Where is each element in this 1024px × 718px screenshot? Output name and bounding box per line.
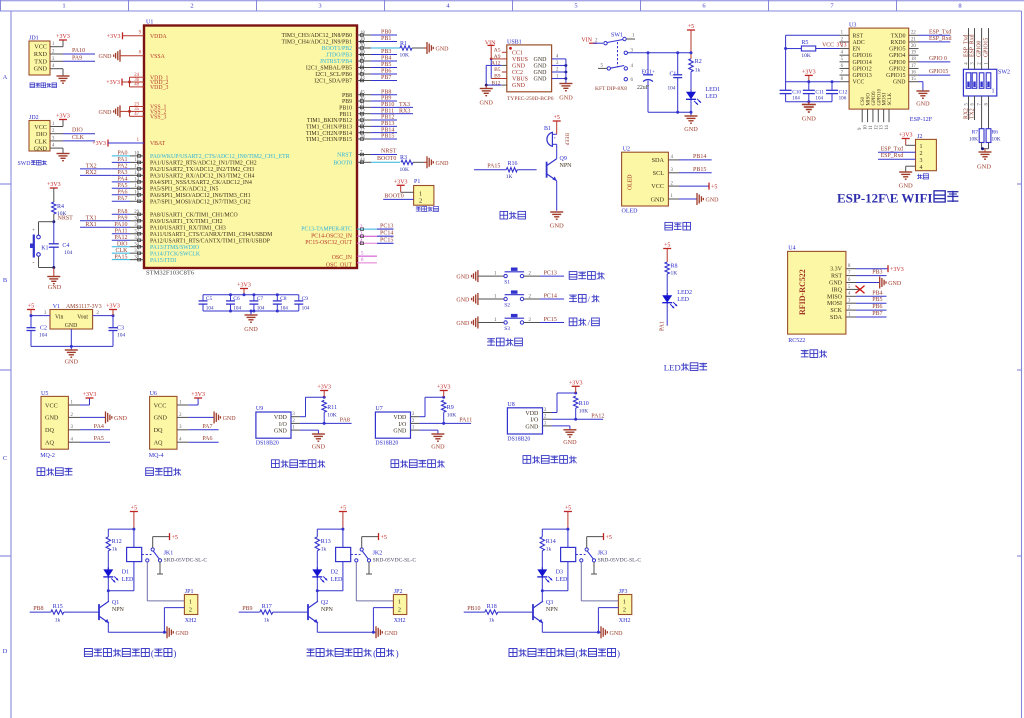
- mcu pin OSC_OUT: [357, 258, 377, 263]
- svg-text:2: 2: [419, 198, 422, 205]
- svg-text:LED: LED: [664, 363, 681, 373]
- svg-text:1k: 1k: [489, 618, 495, 624]
- svg-text:C2: C2: [40, 326, 47, 332]
- svg-text:NRST: NRST: [337, 153, 352, 159]
- svg-text:18: 18: [911, 57, 916, 62]
- svg-text:10K: 10K: [992, 137, 1001, 143]
- svg-text:106: 106: [839, 96, 847, 102]
- svg-text:A: A: [3, 74, 8, 81]
- USB1 left pin labels and wires: [485, 45, 507, 86]
- svg-text:JTDO/PB3: JTDO/PB3: [326, 53, 352, 59]
- svg-text:15: 15: [911, 77, 916, 82]
- svg-text:RFID-RC522: RFID-RC522: [798, 269, 807, 315]
- connector JD1 serial download: [29, 36, 50, 76]
- svg-text:38: 38: [134, 255, 139, 260]
- svg-text:PA7: PA7: [117, 196, 127, 202]
- svg-text:4: 4: [920, 165, 923, 171]
- svg-text:C8: C8: [280, 296, 287, 302]
- svg-text:GND: GND: [436, 47, 450, 53]
- svg-text:GND: GND: [512, 83, 526, 89]
- svg-text:27: 27: [360, 128, 365, 133]
- switch SW1 KFT DIP-8X8: [581, 33, 648, 93]
- svg-text:GND: GND: [48, 284, 62, 291]
- svg-text:C7: C7: [257, 296, 264, 302]
- svg-text:JK3: JK3: [598, 550, 608, 556]
- svg-text:LED: LED: [122, 577, 134, 583]
- svg-text:PA3/USART2_RX/ADC12_IN3/TIM2_C: PA3/USART2_RX/ADC12_IN3/TIM2_CH4: [150, 174, 255, 180]
- svg-text:KFT DIP-8X8: KFT DIP-8X8: [595, 86, 627, 92]
- resistor R5 10K euro style: [786, 40, 847, 59]
- svg-text:PA12: PA12: [114, 235, 127, 241]
- svg-text:PA3: PA3: [117, 170, 127, 176]
- svg-text:R9: R9: [447, 405, 454, 411]
- ground at S1: [456, 270, 478, 282]
- wire +5 rail of led circuit: [647, 24, 696, 59]
- mcu pin PB0: [357, 30, 397, 37]
- net PA12 wire: [551, 413, 604, 420]
- mcu pin PB11: [357, 108, 413, 115]
- svg-text:GPIO14: GPIO14: [853, 60, 872, 66]
- ground at USB1 left: [479, 85, 493, 106]
- svg-text:PB8: PB8: [381, 89, 391, 95]
- svg-text:GND: GND: [312, 443, 326, 450]
- mcu pin row DIO: [112, 241, 144, 248]
- svg-text:ESP_Txd: ESP_Txd: [929, 29, 951, 35]
- resistor R15 1k input: [30, 604, 99, 624]
- mcu pin row CLK: [112, 248, 144, 255]
- svg-text:PB4: PB4: [381, 56, 391, 62]
- svg-text:2: 2: [190, 3, 193, 10]
- svg-text:PA15/JTDI: PA15/JTDI: [150, 258, 176, 264]
- svg-text:+5: +5: [664, 243, 670, 249]
- mcu pin row PA11: [112, 228, 144, 235]
- svg-text:BEEP: BEEP: [564, 133, 569, 145]
- svg-text:104: 104: [257, 306, 265, 312]
- svg-text:GND: GND: [393, 429, 407, 435]
- svg-text:45: 45: [360, 91, 365, 96]
- svg-text:104: 104: [233, 306, 241, 312]
- svg-text:VBUS: VBUS: [512, 57, 528, 63]
- svg-text:1: 1: [623, 599, 626, 606]
- sw2 bottom wires rx2 tx2: [963, 96, 989, 120]
- svg-text:21: 21: [911, 37, 916, 42]
- net PB6 wire: [856, 304, 887, 310]
- mcu pin PB12: [357, 115, 397, 122]
- svg-text:1k: 1k: [321, 546, 327, 552]
- svg-text:39: 39: [360, 50, 365, 55]
- svg-text:+3V3: +3V3: [47, 182, 61, 188]
- svg-text:GPIO15: GPIO15: [983, 38, 989, 57]
- svg-text:5: 5: [574, 3, 577, 10]
- svg-text:+3V3: +3V3: [802, 69, 816, 75]
- svg-text:GND: GND: [223, 416, 237, 422]
- svg-text:104: 104: [815, 96, 823, 102]
- ground at U9: [300, 430, 326, 450]
- svg-text:PB6: PB6: [381, 69, 391, 75]
- ground at U6: [189, 411, 237, 423]
- svg-text:GND: GND: [114, 416, 128, 422]
- svg-text:MOSI: MOSI: [883, 93, 888, 106]
- mcu pin PA2: [80, 163, 144, 170]
- net ESP_Rxd at J2: [878, 153, 916, 159]
- svg-text:RXD0: RXD0: [890, 40, 905, 46]
- svg-text:+5: +5: [688, 24, 694, 30]
- svg-text:R15: R15: [53, 604, 63, 610]
- power +5 relay JK3: [564, 506, 572, 548]
- ground reset: [47, 266, 61, 291]
- esp pin stubs: [840, 31, 919, 130]
- relay coil JK1: [107, 547, 142, 592]
- mcu pin PA5: [112, 183, 144, 190]
- svg-text:SRD-05VDC-SL-C: SRD-05VDC-SL-C: [373, 558, 417, 564]
- svg-text:CLK: CLK: [116, 248, 129, 254]
- svg-text:GPIO10: GPIO10: [877, 88, 882, 105]
- U7 pin stubs: [411, 412, 420, 430]
- svg-text:RX1: RX1: [85, 222, 96, 228]
- svg-text:CS0: CS0: [861, 96, 866, 105]
- svg-text:10K: 10K: [400, 167, 410, 173]
- svg-text:18: 18: [360, 31, 365, 36]
- svg-text:I/O: I/O: [530, 418, 539, 424]
- capacitor C11 104: [803, 82, 825, 104]
- mcu pin NRST: [357, 148, 397, 156]
- svg-text:C1: C1: [670, 72, 677, 78]
- svg-text:13: 13: [134, 171, 139, 176]
- resistor R4 10K: [52, 202, 67, 217]
- svg-text:PA11/USART1_CTS/CANRX/TIM1_CH4: PA11/USART1_CTS/CANRX/TIM1_CH4/USBDM: [150, 232, 272, 238]
- net PA4 wire: [80, 424, 110, 430]
- svg-text:PA6: PA6: [202, 436, 212, 442]
- svg-text:GND: GND: [274, 429, 288, 435]
- mcu pin OSC_IN: [357, 251, 377, 256]
- svg-text:11: 11: [134, 158, 139, 163]
- mcu pin PC14: [357, 231, 394, 238]
- mcu pin PB1: [357, 36, 397, 43]
- mcu pin PA1: [112, 157, 144, 164]
- svg-text:2: 2: [398, 606, 401, 613]
- resistor R13 1k: [315, 537, 331, 570]
- caption relay output: [307, 649, 399, 659]
- svg-text:PA8/USART1_CK/TIM1_CH1/MCO: PA8/USART1_CK/TIM1_CH1/MCO: [150, 213, 238, 219]
- svg-text:SDA: SDA: [830, 315, 843, 321]
- svg-text:17: 17: [911, 64, 916, 69]
- svg-text:EN: EN: [853, 47, 862, 53]
- svg-text:40: 40: [360, 57, 365, 62]
- U6 pin wires: [177, 400, 189, 442]
- svg-text:EC1: EC1: [642, 70, 652, 76]
- svg-text:MISO: MISO: [867, 93, 872, 106]
- svg-text:PA10: PA10: [114, 222, 127, 228]
- regulator V1 AMS1117-3V3: [50, 304, 102, 329]
- svg-text:30: 30: [134, 217, 139, 222]
- svg-text:PA2/USART2_TX/ADC12_IN2/TIM2_C: PA2/USART2_TX/ADC12_IN2/TIM2_CH3: [150, 167, 254, 173]
- diode LED1: [686, 87, 720, 105]
- svg-text:20: 20: [911, 44, 916, 49]
- svg-text:(: (: [373, 649, 376, 659]
- oled pin wires: [668, 155, 679, 199]
- oled module U2: [622, 147, 669, 215]
- resistor R16 1K: [474, 161, 537, 180]
- power +3V3 at JD2: [56, 114, 70, 120]
- svg-text:1k: 1k: [695, 68, 701, 74]
- svg-text:104: 104: [117, 333, 126, 339]
- svg-text:PA5: PA5: [94, 436, 104, 442]
- net GPIO15 wire: [919, 69, 951, 75]
- caption xiazai at J2: [917, 174, 928, 179]
- svg-text:+5: +5: [28, 304, 34, 310]
- switch S1: [478, 268, 540, 286]
- svg-text:): ): [617, 649, 620, 659]
- svg-text:SW1: SW1: [611, 33, 623, 39]
- capacitor C10 104: [780, 90, 802, 102]
- svg-text:3: 3: [318, 3, 321, 10]
- svg-text:GND: GND: [99, 110, 113, 116]
- net PB4 wire: [856, 290, 887, 296]
- caption LED deng dianlu: [664, 363, 707, 373]
- net PA10 wire: [63, 48, 95, 54]
- title ESP-12F\E WIFI module: [837, 191, 958, 206]
- svg-text:Vin: Vin: [55, 315, 63, 321]
- svg-text:TIM1_CH2N/PB14: TIM1_CH2N/PB14: [306, 131, 352, 137]
- svg-text:R18: R18: [487, 604, 497, 610]
- caption button function: [569, 318, 599, 328]
- mcu pin PB6: [357, 69, 397, 76]
- relay emitter gnd rail JK2: [317, 623, 398, 638]
- svg-text:ESP-12F\E WIFI: ESP-12F\E WIFI: [837, 191, 932, 206]
- ground at U8: [551, 426, 577, 446]
- wire NC contact to JP3: [581, 562, 618, 601]
- net PA8 wire: [300, 418, 352, 425]
- svg-text:GPIO5: GPIO5: [889, 47, 906, 53]
- net PA6 wire: [189, 436, 219, 442]
- svg-text:+: +: [32, 229, 35, 234]
- svg-text:I/O: I/O: [398, 422, 407, 428]
- svg-text:GND: GND: [550, 223, 564, 230]
- connector USB1 TYPEC: [507, 40, 552, 92]
- svg-text:PB14: PB14: [693, 154, 706, 160]
- net PA7 wire: [189, 424, 219, 430]
- buzzer B1: [544, 126, 569, 147]
- svg-text:LED: LED: [331, 577, 343, 583]
- svg-text:TIM3_CH4/ADC12_IN9/PB1: TIM3_CH4/ADC12_IN9/PB1: [281, 40, 352, 46]
- svg-text:CLK: CLK: [35, 138, 48, 145]
- ground at JD1 pin4: [57, 69, 70, 84]
- net PB15 wire: [679, 167, 712, 173]
- relay top rail JK1: [108, 529, 134, 537]
- svg-text:VCC: VCC: [853, 80, 865, 86]
- relay switch JK3: [576, 540, 642, 574]
- svg-text:): ): [173, 649, 176, 659]
- svg-text:44: 44: [360, 158, 365, 163]
- led circuit ground rail: [648, 101, 698, 133]
- mcu pin PB7: [357, 75, 397, 82]
- svg-text:VDD: VDD: [274, 415, 288, 421]
- svg-text:BOOT1/PB2: BOOT1/PB2: [322, 46, 352, 52]
- net PC13 wire: [540, 271, 564, 277]
- svg-text:12: 12: [874, 125, 879, 130]
- svg-text:GND: GND: [479, 100, 493, 107]
- svg-text:GND: GND: [65, 359, 79, 366]
- svg-text:NPN: NPN: [112, 607, 125, 613]
- svg-text:GND: GND: [456, 321, 470, 327]
- svg-text:OLED: OLED: [628, 175, 634, 190]
- ground at S2: [456, 293, 478, 305]
- svg-text:U9: U9: [256, 406, 263, 412]
- svg-text:GND: GND: [706, 198, 720, 204]
- svg-text:PB10: PB10: [467, 606, 480, 612]
- power +5 at relay switch JK3: [587, 533, 612, 541]
- resistor R3 10K: [400, 155, 425, 173]
- svg-text:14: 14: [885, 125, 890, 130]
- svg-text:XH2: XH2: [185, 618, 197, 624]
- svg-text:PB11: PB11: [339, 112, 352, 118]
- svg-text:1k: 1k: [264, 618, 270, 624]
- svg-text:+3V3: +3V3: [437, 385, 451, 391]
- mcu pin PB5: [357, 62, 397, 69]
- transistor Q9 NPN: [547, 144, 573, 210]
- svg-text:GND: GND: [99, 54, 113, 60]
- svg-text:12: 12: [134, 165, 139, 170]
- mcu pin PC15: [357, 238, 394, 245]
- svg-text:ESP_Txd: ESP_Txd: [881, 146, 903, 152]
- svg-text:GND: GND: [684, 126, 698, 133]
- svg-text:OSC_OUT: OSC_OUT: [326, 263, 353, 269]
- svg-text:GPIO0: GPIO0: [976, 40, 982, 57]
- power +3V3 at U6: [189, 392, 205, 405]
- svg-text:R8: R8: [671, 264, 678, 270]
- connector JP1 XH2: [184, 589, 197, 624]
- caption button function: [569, 294, 599, 304]
- mcu pin PA0: [112, 151, 144, 158]
- svg-text:SRD-05VDC-SL-C: SRD-05VDC-SL-C: [598, 558, 642, 564]
- svg-text:SWD: SWD: [18, 161, 31, 167]
- sw2 resistors ground: [977, 143, 992, 171]
- relay top rail JK3: [542, 529, 568, 537]
- svg-text:104: 104: [302, 306, 310, 312]
- svg-text:AMS1117-3V3: AMS1117-3V3: [66, 304, 102, 310]
- svg-text:22: 22: [360, 109, 365, 114]
- svg-text:1k: 1k: [55, 618, 61, 624]
- svg-text:PC13: PC13: [380, 224, 393, 230]
- relay top rail JK2: [317, 529, 343, 537]
- svg-text:+: +: [652, 70, 655, 75]
- svg-text:21: 21: [360, 103, 365, 108]
- svg-text:VCC: VCC: [34, 124, 47, 131]
- connector JP2 XH2: [393, 589, 406, 624]
- svg-text:PA9: PA9: [72, 55, 82, 61]
- svg-text:104: 104: [39, 333, 48, 339]
- svg-text:(: (: [576, 649, 579, 659]
- svg-text:Q2: Q2: [321, 600, 328, 606]
- resistor R1 10K: [400, 41, 425, 59]
- svg-text:GND: GND: [512, 64, 526, 70]
- svg-text:PB9: PB9: [342, 99, 352, 105]
- svg-text:+5: +5: [554, 115, 560, 121]
- resistor R10 10K: [574, 396, 589, 419]
- svg-text:1: 1: [398, 599, 401, 606]
- svg-text:GPIO12: GPIO12: [853, 66, 872, 72]
- svg-text:SCL: SCL: [653, 170, 665, 177]
- svg-text:GPIO9: GPIO9: [872, 91, 877, 106]
- svg-text:VCC: VCC: [34, 44, 47, 51]
- svg-text:1: 1: [189, 599, 192, 606]
- svg-text:XH2: XH2: [619, 618, 631, 624]
- svg-text:GPIO15: GPIO15: [886, 73, 905, 79]
- svg-text:PB9: PB9: [381, 96, 391, 102]
- ground at J2: [899, 166, 916, 189]
- svg-text:GND: GND: [899, 183, 913, 190]
- svg-text:22: 22: [911, 31, 916, 36]
- diode D1 LED: [103, 567, 134, 582]
- svg-text:VIN: VIN: [581, 38, 592, 44]
- svg-text:R7: R7: [972, 130, 979, 136]
- mcu pin VSSA GND: [99, 50, 145, 62]
- svg-text:JNTRST/PB4: JNTRST/PB4: [320, 59, 352, 65]
- svg-text:2: 2: [189, 606, 192, 613]
- svg-text:VBAT: VBAT: [150, 141, 166, 147]
- net CLK wire: [63, 135, 95, 141]
- wire JP2 pin2 to gnd rail: [373, 608, 393, 633]
- svg-text:VBUS: VBUS: [512, 77, 528, 83]
- svg-text:1: 1: [992, 89, 995, 95]
- svg-text:PA5: PA5: [117, 183, 127, 189]
- svg-text:NPN: NPN: [321, 607, 334, 613]
- svg-text:PB4: PB4: [872, 290, 882, 296]
- switch S3: [478, 314, 540, 332]
- U5 pin wires: [68, 400, 80, 442]
- svg-text:SCLK: SCLK: [888, 92, 893, 105]
- relay switch JK2: [351, 540, 417, 574]
- regulator ground rail: [31, 329, 113, 366]
- svg-text:1: 1: [419, 190, 422, 197]
- svg-text:GND: GND: [456, 298, 470, 304]
- resistor R2 1k: [689, 59, 702, 92]
- svg-text:PB5: PB5: [381, 62, 391, 68]
- svg-text:PC14: PC14: [380, 231, 393, 237]
- svg-text:GND: GND: [534, 57, 548, 63]
- svg-text:XH2: XH2: [394, 618, 406, 624]
- net PB7 wire: [856, 311, 887, 317]
- svg-text:I2C1_SDA/PB7: I2C1_SDA/PB7: [314, 79, 352, 85]
- switch S2: [478, 290, 540, 308]
- svg-text:NPN: NPN: [560, 163, 573, 169]
- svg-text:D1: D1: [122, 570, 129, 576]
- svg-text:JK1: JK1: [164, 550, 174, 556]
- svg-text:PC13-TAMPER-RTC: PC13-TAMPER-RTC: [301, 227, 352, 233]
- svg-text:PA15: PA15: [114, 254, 127, 260]
- resistor R14 1k: [540, 537, 556, 570]
- svg-text:16: 16: [911, 70, 916, 75]
- svg-text:NPN: NPN: [546, 607, 559, 613]
- mcu pin PB13: [357, 121, 397, 128]
- svg-text:LED: LED: [706, 94, 718, 100]
- svg-text:GND: GND: [563, 439, 577, 446]
- svg-text:GND: GND: [244, 326, 258, 333]
- transistor Q1 NPN: [99, 591, 125, 623]
- svg-text:PC14-OSC32_IN: PC14-OSC32_IN: [311, 234, 353, 240]
- resistor R18 1k input: [464, 604, 533, 624]
- svg-text:22uF: 22uF: [637, 85, 650, 91]
- svg-text:C6: C6: [233, 296, 240, 302]
- svg-text:GND: GND: [802, 116, 816, 123]
- svg-text:15: 15: [134, 184, 139, 189]
- net ESP_Rxd wire: [919, 36, 952, 42]
- svg-text:DS18B20: DS18B20: [507, 436, 530, 442]
- mcu pin row PA12: [112, 235, 144, 242]
- svg-text:GND: GND: [977, 164, 991, 171]
- svg-text:PB7: PB7: [381, 75, 391, 81]
- svg-text:GPIO2: GPIO2: [889, 66, 906, 72]
